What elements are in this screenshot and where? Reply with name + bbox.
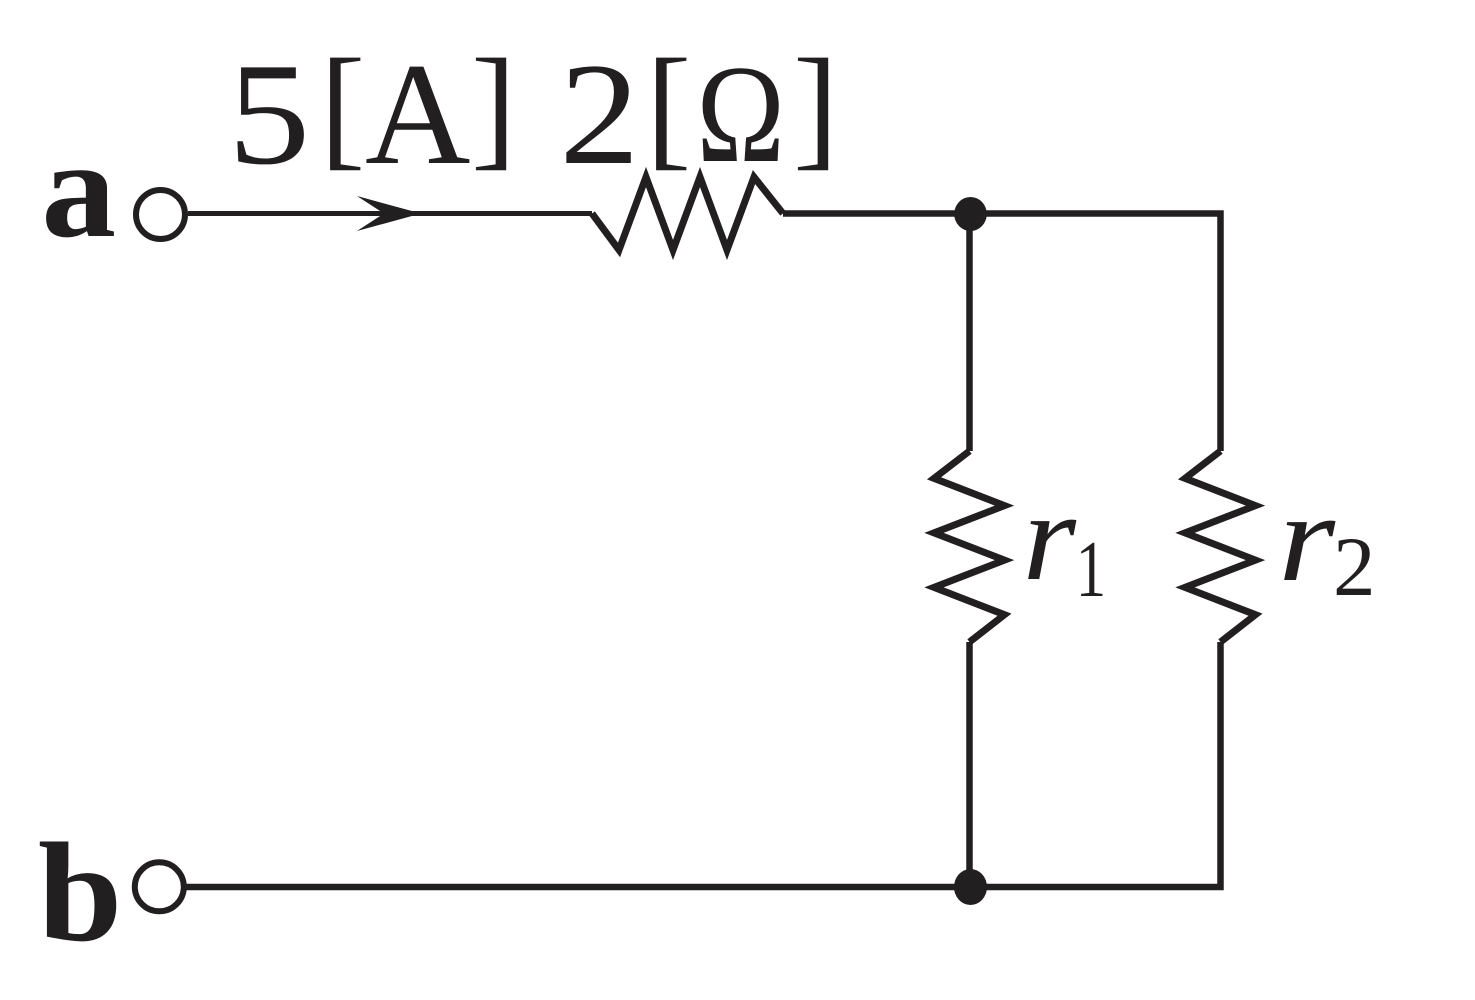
svg-text:]: ] <box>471 32 516 182</box>
wire from terminal a to resistor <box>188 211 592 216</box>
label 5[A] current value <box>228 32 516 195</box>
svg-text:b: b <box>38 814 122 971</box>
svg-text:1: 1 <box>1076 525 1106 614</box>
svg-text:A: A <box>365 33 470 195</box>
wire from r2 down to bottom wire <box>970 642 1221 887</box>
terminal b (open circle) <box>135 862 184 911</box>
label 2[ohm] resistor value <box>559 32 838 195</box>
svg-text:r: r <box>1278 467 1336 607</box>
resistor r1 (vertical zigzag) <box>934 451 1005 642</box>
svg-text:Ω: Ω <box>696 37 784 192</box>
svg-text:a: a <box>41 112 116 267</box>
svg-text:2: 2 <box>1333 520 1376 614</box>
node B junction dot (bottom) <box>954 869 987 905</box>
node A junction dot (top) <box>954 197 987 231</box>
wire from resistor through node A to top-right corner, down to r2 <box>783 214 1221 452</box>
terminal a (open circle) <box>136 190 185 239</box>
resistor r2 (vertical zigzag) <box>1185 451 1256 642</box>
current direction arrow 5A <box>357 196 421 231</box>
wire from node A down to resistor r1 <box>966 214 973 451</box>
svg-text:5: 5 <box>228 33 310 195</box>
svg-text:]: ] <box>793 32 838 182</box>
resistor 2 ohm (horizontal zigzag) <box>592 177 783 250</box>
svg-text:[: [ <box>320 32 365 182</box>
svg-text:r: r <box>1023 467 1077 607</box>
svg-text:[: [ <box>646 32 691 182</box>
wire from r1 to bottom node B <box>966 642 973 887</box>
svg-text:2: 2 <box>559 34 639 196</box>
wire from terminal b to node B <box>185 884 970 891</box>
